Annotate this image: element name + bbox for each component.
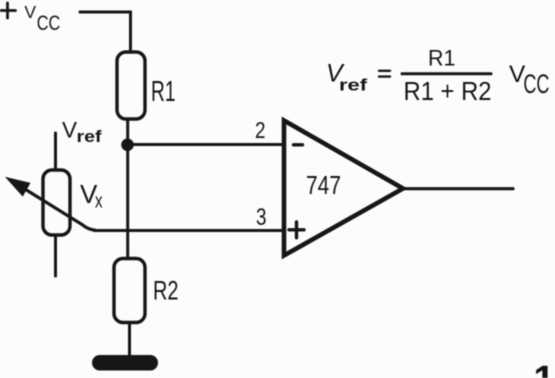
svg-text:ref: ref <box>77 127 102 146</box>
svg-text:CC: CC <box>523 69 549 99</box>
svg-text:R1: R1 <box>151 76 176 108</box>
svg-text:ref: ref <box>339 76 367 95</box>
svg-text:1: 1 <box>534 359 555 378</box>
svg-text:2: 2 <box>255 117 266 143</box>
svg-text:CC: CC <box>37 11 61 35</box>
svg-text:R1: R1 <box>428 46 456 71</box>
svg-text:3: 3 <box>256 204 267 231</box>
svg-text:x: x <box>95 191 103 213</box>
svg-text:V: V <box>24 2 36 22</box>
svg-text:R1 + R2: R1 + R2 <box>404 76 492 106</box>
svg-text:V: V <box>62 117 77 142</box>
svg-text:747: 747 <box>306 170 341 200</box>
svg-text:R2: R2 <box>153 275 179 305</box>
